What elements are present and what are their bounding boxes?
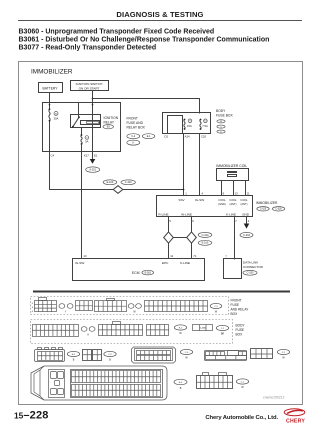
chery logo [284, 409, 305, 416]
svg-text:BOX: BOX [231, 312, 239, 316]
svg-text:E-100: E-100 [107, 181, 114, 184]
pin grid 6 [99, 325, 143, 336]
wire switch stub down [73, 127, 75, 128]
node ignition branch [92, 98, 94, 100]
body fuse box pinout group [31, 320, 233, 344]
svg-text:FRONT: FRONT [127, 116, 138, 120]
svg-text:RELAY BOX: RELAY BOX [127, 126, 146, 130]
svg-text:B3061 - Disturbed Or No Challe: B3061 - Disturbed Or No Challenge/Respon… [19, 36, 270, 43]
fuse 15A [184, 120, 185, 130]
svg-text:COIL: COIL [229, 198, 237, 202]
svg-text:R-LINE: R-LINE [158, 213, 168, 217]
pin grid 7 [147, 325, 169, 336]
junction diamond R-line [164, 232, 174, 243]
svg-text:11: 11 [170, 254, 173, 258]
svg-text:IG-SW: IG-SW [75, 261, 84, 265]
svg-text:SSV: SSV [178, 198, 185, 202]
svg-text:A-201: A-201 [89, 169, 96, 172]
connector oval BR [216, 325, 228, 330]
immobilizer coil box [217, 169, 249, 181]
wire unit ground [246, 217, 248, 224]
mini connector b [93, 350, 102, 361]
immobilizer unit box [157, 196, 253, 217]
connector oval B2 [174, 325, 186, 330]
ground relay coil [90, 159, 96, 164]
svg-text:7.5A: 7.5A [202, 124, 208, 128]
body fuse box inner compartment [168, 116, 183, 134]
svg-text:C-100: C-100 [125, 181, 132, 184]
junction diamond W-line [187, 232, 197, 243]
svg-text:AND RELAY: AND RELAY [231, 307, 250, 311]
mini connector 4pin [251, 349, 273, 359]
twisted pair link [169, 237, 192, 239]
svg-text:C-020: C-020 [260, 209, 267, 211]
ECM connector pin grid [71, 370, 163, 398]
svg-text:Chery Automobile Co., Ltd.: Chery Automobile Co., Ltd. [205, 415, 278, 421]
wire coil ant 1 [233, 180, 235, 196]
wire C20 to IG-SW [199, 134, 201, 197]
svg-text:COIL: COIL [240, 198, 248, 202]
separator rule [33, 291, 290, 293]
connector ovals E-100 C-100 on battery run [103, 180, 117, 185]
svg-text:(ANT): (ANT) [241, 202, 248, 206]
svg-text:ON OR START: ON OR START [79, 87, 100, 91]
svg-text:C-2: C-2 [131, 135, 136, 138]
svg-text:IG-SW: IG-SW [195, 198, 204, 202]
oval W5 [236, 379, 248, 384]
oval W3 [180, 349, 192, 354]
connector oval pair A [81, 327, 87, 332]
svg-text:C4: C4 [51, 153, 55, 157]
svg-text:DIAGNOSIS & TESTING: DIAGNOSIS & TESTING [116, 10, 203, 19]
svg-text:DATA LINK: DATA LINK [243, 261, 259, 265]
figure frame [19, 62, 303, 405]
connector C view [205, 351, 247, 361]
svg-text:D2: D2 [165, 135, 169, 139]
svg-text:FRONT: FRONT [231, 298, 242, 302]
svg-text:E-100: E-100 [202, 242, 209, 245]
oval B2r [104, 351, 116, 356]
svg-text:IGNITION: IGNITION [104, 116, 119, 120]
svg-text:IMMOBILIZER: IMMOBILIZER [256, 201, 278, 205]
wire ignition switch down to relay coil and ground [92, 91, 94, 159]
svg-text:BODY: BODY [236, 323, 246, 327]
pin grid 1 [35, 301, 57, 312]
wire switch stub up [78, 103, 80, 117]
svg-text:C-026: C-026 [275, 209, 282, 211]
svg-text:30A: 30A [54, 116, 59, 120]
oval E-001 view [174, 379, 187, 384]
fuse 30A [49, 109, 50, 120]
wire coil gnd [221, 180, 223, 196]
ground unit [244, 224, 250, 229]
ECM connector big pins [49, 370, 65, 398]
ECM box [73, 259, 205, 281]
relay coil [81, 121, 100, 125]
svg-text:71: 71 [193, 254, 197, 258]
connector K view [197, 376, 233, 389]
wire relay output to ECM IG-SW [81, 128, 83, 259]
connector ovals front box [127, 134, 140, 139]
wire ignition to body fuse box [93, 99, 200, 114]
svg-text:K17: K17 [84, 153, 89, 157]
svg-text:C-100: C-100 [202, 234, 209, 237]
svg-text:E-001: E-001 [145, 271, 152, 274]
svg-text:IMMOBILIZER COIL: IMMOBILIZER COIL [216, 164, 247, 168]
svg-text:IMMOBILIZER: IMMOBILIZER [31, 69, 73, 76]
svg-text:COIL: COIL [218, 198, 226, 202]
fuse 5A [79, 135, 85, 145]
oval W4 [277, 349, 289, 354]
svg-text:E1: E1 [94, 153, 98, 157]
ECM connector view [31, 366, 167, 400]
svg-text:E-1: E-1 [147, 135, 151, 138]
svg-text:IGNITION SWITCH: IGNITION SWITCH [76, 82, 103, 86]
svg-text:5A: 5A [85, 140, 88, 144]
wire W-LINE [191, 217, 193, 259]
svg-text:BODY: BODY [216, 109, 226, 113]
junction diamond on battery run [113, 186, 123, 194]
connector oval W2 [210, 303, 222, 308]
data link connector [224, 259, 242, 279]
svg-text:W-LINE: W-LINE [181, 213, 192, 217]
body fuse box [163, 113, 211, 134]
fuse 7.5A [200, 120, 201, 130]
svg-text:C-030: C-030 [247, 272, 254, 275]
pin grid 5 [33, 325, 79, 337]
connector oval pair Y [59, 304, 65, 309]
ignition switch [71, 81, 109, 91]
svg-text:CONNECTOR: CONNECTOR [243, 265, 264, 269]
OBD connector view [132, 347, 176, 363]
relay switch contact [73, 117, 79, 127]
svg-text:(GND): (GND) [218, 202, 226, 206]
svg-text:CHERY: CHERY [286, 419, 305, 425]
svg-text:C20: C20 [201, 135, 207, 139]
svg-text:15–228: 15–228 [14, 409, 49, 421]
mini fuse boxes [193, 325, 213, 331]
svg-text:B3060 - Unprogrammed Transpond: B3060 - Unprogrammed Transponder Fixed C… [19, 28, 215, 35]
front fuse relay box pinout group [31, 297, 229, 315]
pin grid 3 [95, 301, 127, 312]
connector ovals body box A C D [217, 120, 225, 123]
svg-text:FUSE: FUSE [236, 328, 245, 332]
wire battery feed C4 run [50, 121, 184, 190]
header rule [18, 20, 302, 22]
svg-text:BR: BR [221, 332, 225, 335]
wire A14 to SSV [183, 134, 185, 197]
svg-text:C-204: C-204 [243, 234, 250, 237]
pin grid 2 [76, 301, 93, 311]
svg-text:BOX: BOX [236, 332, 244, 336]
connector E-201 view [35, 350, 65, 362]
svg-text:GND: GND [242, 213, 250, 217]
svg-text:FUSE AND: FUSE AND [127, 121, 144, 125]
relay K1 inner box [71, 115, 101, 128]
wire R-LINE [168, 217, 170, 259]
svg-text:ECM: ECM [132, 271, 140, 275]
svg-text:13: 13 [83, 254, 87, 258]
svg-text:6-45A: 6-45A [200, 327, 206, 330]
coil winding bars [228, 172, 237, 173]
svg-text:cneme150212: cneme150212 [263, 395, 285, 399]
wire coil ant 2 [245, 180, 247, 196]
svg-text:15A: 15A [187, 124, 192, 128]
svg-text:A14: A14 [185, 135, 190, 139]
svg-text:(ANT): (ANT) [230, 202, 237, 206]
connector oval pair W [128, 304, 134, 309]
wire K-LINE to DLC [234, 217, 236, 260]
battery B+ [39, 83, 63, 93]
mini connector a [83, 350, 92, 361]
svg-text:RELAY: RELAY [104, 120, 115, 124]
svg-text:BATTERY: BATTERY [43, 86, 59, 90]
ignition relay outer box (front fuse and relay box) [43, 103, 121, 152]
node A14/battery-run join [183, 189, 185, 191]
svg-text:B3077 - Read-Only Transponder: B3077 - Read-Only Transponder Detected [19, 44, 157, 51]
svg-text:K-LINE: K-LINE [180, 261, 190, 265]
svg-text:FUSE: FUSE [231, 303, 240, 307]
connector ovals C-100 E-100 [198, 232, 212, 237]
oval B1 [67, 351, 79, 356]
svg-text:FUSE BOX: FUSE BOX [216, 113, 233, 117]
svg-text:EPC: EPC [162, 261, 169, 265]
wire battery to fuse 30A [49, 92, 51, 109]
svg-text:K-LINE: K-LINE [226, 213, 236, 217]
pin grid 4 [145, 301, 208, 312]
